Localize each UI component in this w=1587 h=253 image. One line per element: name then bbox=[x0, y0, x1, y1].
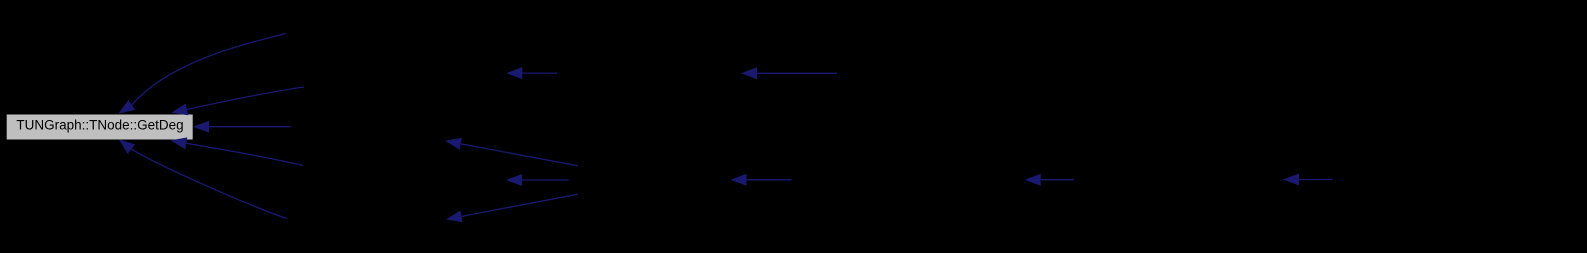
edge R2: middle row chain link 2 bbox=[1025, 174, 1074, 186]
edge R3: middle row chain link 3 bbox=[1283, 174, 1333, 186]
edge F2: fan middle horizontal bbox=[506, 174, 569, 186]
edge F1: fan upper from mid column box bbox=[445, 138, 578, 166]
edge R1: middle row chain link 1 bbox=[731, 174, 792, 186]
node: TUNGraph::TNode::GetDeg (highlighted grey box) bbox=[6, 114, 193, 140]
svg-text:TUNGraph::TNode::GetDeg: TUNGraph::TNode::GetDeg bbox=[16, 118, 183, 133]
edge E3: caller 3 -> GetDeg (horizontal) bbox=[193, 121, 291, 133]
edge E1: top arc caller -> GetDeg (curved) bbox=[118, 34, 285, 114]
edge T2: top row chain link 2 bbox=[741, 67, 837, 79]
edge E2: caller 2 -> GetDeg bbox=[171, 87, 304, 115]
edge E4: caller 4 -> GetDeg bbox=[171, 137, 304, 165]
edge T1: top row chain link 1 bbox=[506, 67, 557, 79]
edge E5: bottom arc caller -> GetDeg (curved) bbox=[119, 139, 287, 218]
edge F3: fan lower from mid column box bbox=[446, 194, 578, 222]
